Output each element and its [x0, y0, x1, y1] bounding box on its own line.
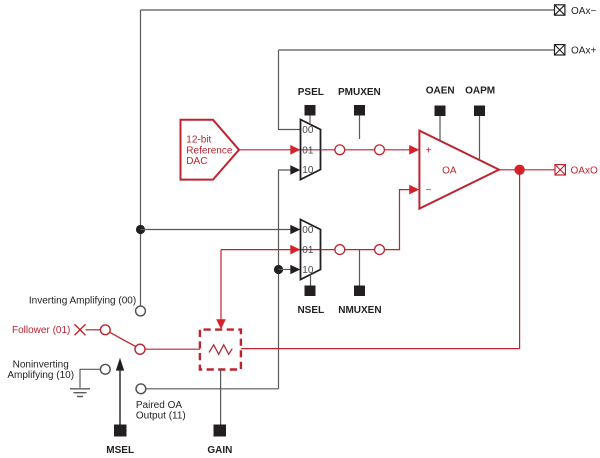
wire OAx+ horizontal	[279, 49, 555, 51]
label OAPM	[465, 86, 495, 97]
OAEN control stem	[439, 116, 441, 141]
PMUXEN control stem	[359, 116, 361, 140]
svg-text:OAEN: OAEN	[426, 86, 455, 97]
wire junction to NSEL input 00	[141, 225, 301, 235]
svg-text:PSEL: PSEL	[298, 87, 324, 98]
svg-text:Amplifying (10): Amplifying (10)	[7, 370, 74, 381]
switch contact circle 1 (PMUXEN)	[335, 145, 345, 155]
GAIN control square	[214, 425, 227, 437]
MSEL selector arrow	[116, 358, 124, 425]
svg-text:12-bit: 12-bit	[186, 135, 211, 146]
svg-text:Paired OA: Paired OA	[136, 400, 182, 411]
wire OAx- vertical (to MSEL position 00)	[140, 10, 142, 306]
svg-text:01: 01	[302, 145, 314, 156]
ground	[70, 389, 90, 397]
svg-text:10: 10	[302, 265, 314, 276]
switch contact circle 2 (PMUXEN)	[375, 145, 385, 155]
switch contact circle 1 (NMUXEN)	[335, 245, 345, 255]
svg-text:Follower (01): Follower (01)	[12, 325, 70, 336]
switch arm (pole to Follower)	[110, 332, 136, 346]
svg-text:GAIN: GAIN	[207, 445, 232, 456]
PSEL control square	[305, 105, 316, 116]
pad OAx+	[555, 45, 597, 57]
resistor (gain ladder, dashed box)	[200, 330, 241, 370]
wire feedback from output down to gain resistor	[241, 170, 520, 349]
PMUXEN control square	[354, 105, 365, 116]
label NSEL	[297, 305, 324, 316]
wire op-amp output to pad	[499, 169, 555, 171]
wire Paired-OA column vertical (feeds PSEL 10 / NSEL 10)	[279, 165, 301, 389]
wire NSEL01 column down into resistor (red arrow)	[216, 250, 226, 330]
NMUXEN control stem	[359, 250, 361, 286]
pad OAx-	[555, 5, 597, 17]
wire pole to resistor (red)	[145, 348, 200, 350]
svg-text:+: +	[426, 146, 432, 157]
svg-text:00: 00	[302, 225, 314, 236]
svg-text:10: 10	[302, 165, 314, 176]
OAPM control stem	[479, 116, 481, 161]
wire NSEL output to op-amp - input (red, with NMUXEN switch)	[321, 185, 420, 250]
svg-text:OAPM: OAPM	[465, 86, 495, 97]
wire GAIN stem	[220, 370, 222, 425]
MSEL position 01 contact circle	[100, 325, 110, 335]
label OAEN	[426, 86, 455, 97]
node junction on OAx- line	[136, 225, 145, 234]
pad OAxO	[555, 165, 598, 177]
svg-text:NMUXEN: NMUXEN	[338, 305, 381, 316]
wire OAx- horizontal	[141, 9, 555, 11]
wire PSEL output to op-amp + input (red, with PMUXEN switch)	[321, 145, 420, 155]
OAEN control square	[435, 106, 446, 117]
label PMUXEN	[338, 87, 381, 98]
label PSEL	[298, 87, 324, 98]
switch contact circle 2 (NMUXEN)	[375, 245, 385, 255]
svg-text:PMUXEN: PMUXEN	[338, 87, 381, 98]
svg-text:NSEL: NSEL	[297, 305, 324, 316]
label GAIN	[207, 445, 232, 456]
MSEL position 00 contact circle	[136, 306, 146, 316]
mux PSEL	[301, 120, 321, 180]
node junction on column at NSEL 10	[274, 265, 283, 274]
OAPM control square	[474, 106, 485, 117]
wire NSEL 01 input (red, from gain resistor column)	[221, 245, 321, 255]
svg-text:−: −	[426, 185, 432, 196]
svg-text:OA: OA	[442, 165, 457, 176]
MSEL control square	[114, 425, 127, 437]
NMUXEN control square	[354, 286, 365, 297]
mux NSEL	[301, 220, 321, 280]
svg-text:Reference: Reference	[186, 145, 233, 156]
label NMUXEN	[338, 305, 381, 316]
NSEL control square	[305, 286, 316, 297]
svg-text:DAC: DAC	[186, 156, 207, 167]
svg-text:00: 00	[302, 125, 314, 136]
wire position 11 to paired column	[146, 388, 279, 390]
svg-text:Inverting Amplifying (00): Inverting Amplifying (00)	[29, 295, 136, 306]
wire OAx+ vertical into PSEL input 00	[279, 50, 301, 130]
svg-text:OAxO: OAxO	[571, 166, 598, 177]
NSEL control stem	[310, 274, 312, 285]
label MSEL	[106, 445, 134, 456]
op-amp OA	[419, 131, 499, 209]
MSEL position 10 contact circle	[100, 364, 110, 374]
wire X to follower contact	[86, 329, 101, 331]
label Follower (01)	[12, 325, 70, 336]
svg-text:Output (11): Output (11)	[136, 411, 186, 422]
PSEL control stem	[309, 116, 311, 125]
no-connect X (Follower)	[75, 324, 86, 335]
wire junction to NSEL input 10	[279, 265, 301, 275]
svg-text:OAx−: OAx−	[571, 6, 596, 17]
DAC 12-bit Reference DAC	[181, 120, 240, 180]
label Noninverting Amplifying (10)	[7, 360, 74, 382]
label Paired OA Output (11)	[136, 400, 186, 422]
svg-text:Noninverting: Noninverting	[13, 360, 69, 371]
label Inverting Amplifying (00)	[29, 295, 136, 306]
wire DAC output to PSEL input 01	[239, 145, 321, 155]
svg-text:OAx+: OAx+	[571, 46, 596, 57]
wire position 10 to ground	[80, 369, 100, 388]
svg-text:MSEL: MSEL	[106, 445, 134, 456]
node output junction dot	[514, 165, 524, 175]
svg-text:01: 01	[302, 245, 314, 256]
MSEL position 11 contact circle	[136, 384, 146, 394]
MSEL pole contact circle	[135, 344, 145, 354]
